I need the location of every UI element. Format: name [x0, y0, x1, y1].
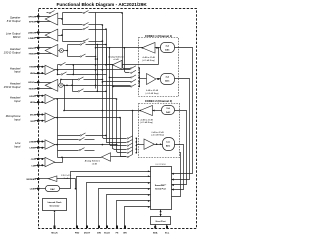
bus V1b — [97, 44, 99, 92]
wire DAC1 data — [172, 48, 193, 175]
sigma-delta ADC2 box — [163, 138, 175, 151]
wire row1 bracket — [58, 13, 83, 25]
row6 pins HDSI+/HDSI- — [29, 95, 44, 104]
pin DOUT — [84, 182, 151, 234]
wire sidetone2 to DAC2 line — [111, 110, 134, 158]
svg-text:LINEI-: LINEI- — [29, 148, 36, 150]
svg-text:SDA: SDA — [153, 231, 158, 234]
svg-text:HNSO+: HNSO+ — [28, 48, 36, 50]
wire row9 out — [55, 158, 63, 163]
svg-text:CODEC 2 (Channel 2): CODEC 2 (Channel 2) — [145, 99, 172, 103]
svg-text:1.35 V ±1%: 1.35 V ±1% — [61, 175, 72, 177]
svg-text:Generator: Generator — [50, 205, 60, 208]
svg-text:±0 dB: ±0 dB — [92, 163, 98, 165]
pin FSD — [75, 175, 151, 234]
CODEC2 label — [145, 99, 172, 103]
bus V1 — [95, 13, 97, 89]
svg-text:600 Ω: 600 Ω — [13, 35, 21, 39]
svg-text:HNSI+: HNSI+ — [29, 67, 36, 69]
wire row4 out — [55, 69, 131, 71]
svg-text:DAC: DAC — [50, 188, 55, 191]
svg-text:Internal Clock: Internal Clock — [48, 201, 63, 204]
wire ADC2 data — [172, 145, 184, 191]
bus V8 corner (to ADC1) — [123, 13, 131, 69]
row4 pins HNSI+/HNSI- — [29, 66, 44, 75]
svg-text:(+0.5 dB Step): (+0.5 dB Step) — [151, 134, 164, 137]
bus V6 corner — [117, 99, 127, 153]
svg-text:WS: WS — [123, 232, 127, 234]
row3 pins HNSO+/HNSO- — [28, 47, 52, 56]
svg-text:Σ-Δ: Σ-Δ — [166, 77, 170, 79]
wire sidetone1 out — [123, 47, 159, 65]
wire aux data — [172, 153, 181, 197]
wire sidetone1 in — [105, 48, 112, 66]
svg-text:(-0.5 dB Step): (-0.5 dB Step) — [142, 59, 155, 62]
row1 pins SPKO+/SPKO- — [28, 15, 52, 23]
sigma-delta DAC1 box — [161, 43, 175, 53]
row2 group label — [6, 32, 21, 39]
svg-text:CDI+: CDI+ — [31, 159, 37, 161]
op-amp A9 (input amp) — [45, 157, 55, 166]
svg-text:150 Ω Output: 150 Ω Output — [4, 85, 21, 89]
op-amp A3 (output driver) — [45, 45, 58, 57]
host port link arrow — [160, 210, 162, 217]
wire micbias — [57, 179, 77, 190]
wire ADC2 amp to box — [155, 143, 163, 145]
analog sidetone 1 label — [108, 55, 124, 61]
ADC1 PGA amp — [147, 74, 157, 85]
svg-text:Σ-Δ: Σ-Δ — [166, 142, 170, 144]
bus V3 corner — [107, 30, 127, 143]
row8 pins LINEI+/LINEI- — [29, 141, 45, 150]
svg-text:Σ-Δ: Σ-Δ — [167, 108, 171, 110]
CODEC1 box (dashed) — [139, 38, 179, 97]
row1 group label — [7, 15, 22, 22]
host port box — [151, 217, 171, 225]
svg-text:Σ-Δ: Σ-Δ — [166, 46, 170, 48]
svg-text:LINEO-: LINEO- — [28, 38, 36, 40]
svg-text:DAC: DAC — [166, 111, 171, 114]
svg-text:Input: Input — [14, 70, 20, 74]
CODEC2 box (dashed) — [139, 104, 180, 158]
row6 group label — [10, 95, 21, 102]
op-amp A6 (input amp) — [45, 94, 55, 103]
wire row2 bracket — [58, 30, 83, 42]
svg-text:Analog Sidetone: Analog Sidetone — [108, 55, 124, 58]
svg-text:0 dB to 42 dB: 0 dB to 42 dB — [151, 131, 164, 134]
pin DIN — [97, 188, 150, 234]
switch S1b — [83, 23, 89, 26]
svg-text:SCL: SCL — [165, 232, 170, 234]
pin SCLK — [104, 194, 150, 234]
wire ADC1 mux in3 — [109, 77, 131, 79]
row8 group label — [14, 141, 21, 148]
svg-text:Host Port: Host Port — [156, 220, 166, 223]
svg-text:SCLK: SCLK — [104, 232, 110, 234]
switch S2a — [83, 27, 89, 30]
wire row5 center — [64, 85, 131, 87]
micbias buffer amp — [48, 176, 57, 182]
wire DAC2 output — [63, 85, 140, 112]
SmartDM serial port box — [151, 167, 172, 210]
wire ADC1 mux to amp — [140, 78, 147, 80]
row3 group label — [4, 47, 21, 54]
ADC2 input mux switches — [127, 136, 137, 154]
analog sidetone 2 label — [85, 160, 101, 166]
wire row4 ladder — [57, 62, 123, 75]
row5 pins HDSO+/HDSO- — [28, 81, 52, 90]
DAC1 volume amp — [142, 43, 156, 54]
pin WS — [123, 206, 150, 234]
bus V9 corner (to ADC1) — [124, 47, 130, 73]
bus V4 corner — [110, 48, 127, 146]
svg-text:Input: Input — [14, 144, 20, 148]
svg-text:DOUT: DOUT — [84, 232, 91, 234]
LDAC pin — [30, 188, 46, 191]
DAC1 amp label — [142, 56, 155, 62]
pin MCLK — [51, 210, 58, 234]
switch S2b — [83, 39, 89, 42]
svg-text:ADC: ADC — [166, 145, 171, 148]
svg-text:DIN: DIN — [97, 232, 101, 234]
summing node row3 — [58, 49, 64, 53]
wire LDAC to serial port — [60, 170, 151, 188]
svg-text:Functional Block Diagram - A: Functional Block Diagram - AIC2021/29K — [57, 2, 148, 7]
svg-text:Input: Input — [14, 117, 20, 121]
wire mid spare rail — [58, 133, 107, 136]
DAC2 volume amp — [140, 106, 153, 116]
svg-text:150 Ω Output: 150 Ω Output — [4, 50, 21, 54]
row5 group label — [4, 82, 21, 89]
svg-text:0 dB to 42 dB: 0 dB to 42 dB — [146, 89, 159, 92]
chip boundary (dashed) — [39, 9, 197, 229]
svg-text:MICI-: MICI- — [30, 121, 36, 123]
wire DAC2 data — [172, 111, 187, 187]
wire DAC1 output — [96, 47, 143, 49]
svg-text:I²S / PCM i/f: I²S / PCM i/f — [155, 163, 166, 166]
wire ADC1 amp to box — [157, 78, 161, 80]
switch S1a — [83, 11, 89, 14]
wire ADC1 mux in4 — [102, 81, 131, 83]
op-amp A2 (output driver) — [45, 29, 58, 41]
micbias label — [61, 175, 72, 180]
op-amp A7 (input amp) — [45, 113, 55, 122]
svg-text:±0 dB: ±0 dB — [113, 59, 119, 61]
row4 group label — [10, 66, 21, 73]
svg-text:Analog Sidetone: Analog Sidetone — [85, 160, 101, 163]
pin FS — [116, 200, 151, 234]
svg-text:ADC: ADC — [165, 80, 170, 83]
wire sidetone2 input — [58, 157, 102, 159]
op-amp A5 (output driver) — [45, 79, 58, 91]
svg-text:SPKO-: SPKO- — [29, 22, 36, 24]
ADC2 PGA amp — [144, 139, 154, 149]
wire row3 rails to bus — [86, 44, 107, 58]
LDAC converter box — [46, 186, 60, 192]
MICBIAS pin — [27, 178, 49, 181]
switch S3a — [80, 42, 86, 45]
wire row6 out — [55, 98, 118, 157]
op-amp A8 (input amp) — [45, 140, 55, 149]
ADC2 amp label — [151, 131, 164, 137]
pin SDA — [153, 225, 158, 235]
svg-text:MCLK: MCLK — [51, 232, 58, 234]
internal clock generator box — [43, 199, 67, 211]
bus V7 corner — [121, 118, 127, 157]
wire row3 bracket — [64, 45, 81, 57]
bus V2 corner — [103, 26, 127, 139]
svg-text:8 Ω Output: 8 Ω Output — [7, 19, 21, 23]
row2 pins LINEO+/LINEO- — [28, 31, 53, 40]
bus V5 corner — [113, 65, 127, 150]
summing node row5 — [58, 79, 64, 88]
wire DAC2 box to amp — [153, 110, 162, 112]
row7 group label — [6, 114, 21, 121]
wire row8 ladder top — [58, 137, 95, 140]
analog sidetone 2 amp — [102, 153, 111, 162]
sigma-delta ADC1 box — [161, 74, 175, 85]
junction dots bus — [102, 47, 114, 111]
svg-text:(+0.5 dB Step): (+0.5 dB Step) — [146, 92, 159, 95]
pin SCL — [165, 225, 170, 235]
svg-text:Serial Port: Serial Port — [155, 188, 166, 191]
row9 pins CDI+/CDI- — [31, 158, 45, 167]
wire ADC1 data — [172, 79, 190, 181]
ADC1 amp label — [146, 89, 159, 95]
wire row7 out — [55, 117, 121, 119]
svg-text:-6 dB to 42 dB: -6 dB to 42 dB — [140, 118, 153, 121]
wire DAC1 box to amp — [155, 47, 161, 49]
svg-text:(-0.5 dB Step): (-0.5 dB Step) — [140, 121, 153, 124]
note above serial port — [155, 163, 166, 166]
wire row5 bracket — [73, 80, 107, 93]
wire row8 out — [55, 144, 118, 146]
wire row8 ladder bottom — [58, 148, 95, 151]
ADC1 input mux switches — [131, 66, 141, 88]
analog sidetone 1 amp — [113, 60, 123, 69]
wire ADC2 mux to amp — [137, 144, 145, 146]
op-amp A1 (output driver) — [45, 13, 58, 25]
svg-text:DAC: DAC — [165, 49, 170, 52]
title text — [57, 2, 148, 7]
svg-text:SmartDM™: SmartDM™ — [155, 184, 167, 187]
svg-text:HDSI+: HDSI+ — [29, 96, 36, 98]
svg-text:-6 dB to 42 dB: -6 dB to 42 dB — [142, 56, 155, 59]
svg-text:FSD: FSD — [75, 232, 80, 234]
row1 feedback switch — [47, 11, 55, 14]
op-amp A4 (input amp) — [45, 65, 55, 74]
row7 pins MICI+/MICI- — [30, 114, 45, 123]
wire row1 rails to bus — [89, 12, 123, 26]
wire row2 rails to bus — [89, 28, 107, 42]
wire row5 rail top — [61, 77, 104, 80]
DAC2 amp label — [140, 118, 153, 124]
svg-text:Input: Input — [14, 99, 20, 103]
switch S3b — [80, 54, 86, 57]
wire ADC1 mux in5 — [112, 86, 130, 88]
CODEC1 label — [145, 34, 172, 38]
sigma-delta DAC2 box — [162, 106, 175, 115]
